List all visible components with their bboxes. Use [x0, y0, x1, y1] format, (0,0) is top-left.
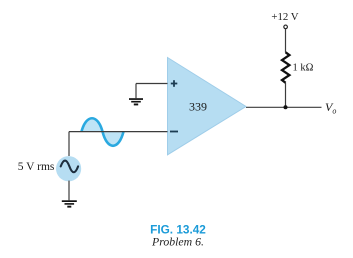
supply terminal circle	[284, 25, 288, 29]
node junction dot	[284, 105, 288, 109]
op-amp comparator 339	[168, 58, 247, 155]
ground at plus input	[129, 98, 143, 105]
resistor R 1 kohm	[282, 52, 289, 83]
sine waveform on wire	[82, 118, 124, 146]
svg-text:5 V rms: 5 V rms	[18, 161, 55, 173]
wire supply to resistor	[285, 29, 287, 53]
svg-text:+12 V: +12 V	[271, 11, 298, 23]
ac source sine symbol	[61, 161, 78, 173]
svg-text:Problem 6.: Problem 6.	[151, 235, 204, 249]
minus input sign	[170, 131, 178, 133]
wire stub down to ground	[135, 84, 137, 99]
wire resistor to output node	[285, 83, 287, 108]
plus input sign	[171, 80, 178, 87]
svg-text:1 kΩ: 1 kΩ	[293, 63, 314, 74]
wire source to ground	[68, 181, 70, 201]
output wire	[246, 106, 322, 108]
svg-text:339: 339	[189, 99, 207, 113]
ac source circle	[56, 156, 81, 181]
wire plus input	[136, 83, 168, 85]
wire source to minus corner	[68, 132, 70, 156]
wire minus input	[69, 131, 168, 133]
ground at source	[62, 200, 77, 207]
